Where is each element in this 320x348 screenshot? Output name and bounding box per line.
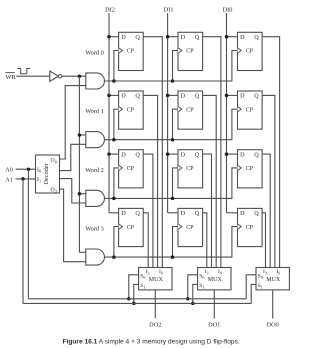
wire A0 to decoder — [16, 168, 36, 170]
junction WR vertical — [78, 74, 82, 78]
svg-text:I1: I1 — [37, 177, 41, 183]
svg-text:D: D — [121, 210, 126, 217]
svg-text:CP: CP — [246, 166, 254, 172]
wire Q output word3 col2 to MUX — [262, 213, 265, 268]
svg-text:D: D — [240, 151, 245, 158]
svg-text:Word 3: Word 3 — [85, 226, 104, 233]
wire Q output word3 col1 to MUX — [203, 213, 207, 268]
flip-flop FF word3 bit2 — [119, 208, 144, 246]
AND gate G2 word 2 — [86, 190, 105, 206]
wire word line 0 — [104, 51, 237, 82]
svg-text:Q: Q — [254, 34, 259, 41]
svg-text:DI2: DI2 — [105, 7, 115, 14]
wire select line S1 — [23, 302, 251, 304]
svg-text:Q: Q — [135, 151, 140, 158]
wire Q output word2 col1 to MUX — [203, 154, 212, 267]
wire DI0 to D input word 3 — [227, 212, 238, 214]
flip-flop FF word3 bit1 — [178, 208, 203, 246]
svg-text:Q: Q — [254, 151, 259, 158]
wire Q output word0 col2 to MUX — [262, 37, 280, 268]
svg-text:DO2: DO2 — [149, 322, 161, 329]
flip-flop FF word0 bit0 — [238, 32, 263, 70]
svg-text:D: D — [121, 151, 126, 158]
pulse waveform symbol — [17, 69, 30, 74]
svg-text:CP: CP — [127, 225, 135, 231]
wire Q output word0 col0 to MUX — [143, 37, 162, 268]
svg-text:D: D — [240, 34, 245, 41]
wire A0 down to S0 select line — [27, 169, 29, 299]
svg-text:DI0: DI0 — [223, 7, 233, 14]
svg-text:Q: Q — [254, 93, 259, 100]
svg-text:CP: CP — [127, 166, 135, 172]
wire DI2 vertical — [108, 13, 110, 213]
svg-text:S1: S1 — [258, 283, 263, 289]
svg-text:CP: CP — [186, 49, 194, 55]
svg-text:D: D — [181, 93, 186, 100]
svg-text:CP: CP — [186, 166, 194, 172]
wire DI0 to D input word 1 — [227, 94, 238, 96]
svg-text:DO0: DO0 — [267, 322, 279, 329]
wire S0 input MUX0 — [246, 275, 256, 299]
svg-text:S0: S0 — [140, 274, 145, 280]
wire word line 1 — [104, 109, 237, 140]
wire decoder O1 to word1 AND — [60, 144, 86, 170]
wire CP riser word 1 col 0 — [114, 109, 119, 140]
svg-text:A0: A0 — [5, 167, 13, 174]
mux U4 MUX1 — [198, 268, 231, 290]
svg-text:MUX: MUX — [149, 277, 164, 283]
svg-text:D: D — [121, 93, 126, 100]
svg-text:S1: S1 — [199, 283, 204, 289]
svg-text:D: D — [121, 34, 126, 41]
svg-text:S0: S0 — [199, 274, 204, 280]
wire DI1 to D input word 1 — [168, 94, 178, 96]
wire Q output word3 col0 to MUX — [143, 213, 148, 268]
wire word line 2 — [104, 168, 237, 199]
wire Q output word1 col2 to MUX — [262, 95, 275, 267]
svg-text:I3: I3 — [205, 269, 209, 275]
wire MUX2 output — [154, 290, 156, 319]
wire decoder O2 to word2 AND — [60, 179, 86, 203]
svg-text:Word 0: Word 0 — [85, 50, 104, 57]
wire CP riser word 2 col 0 — [114, 168, 119, 199]
svg-text:D: D — [240, 93, 245, 100]
svg-text:D: D — [240, 210, 245, 217]
wire MUX1 output — [213, 290, 215, 319]
svg-text:D: D — [181, 210, 186, 217]
flip-flop FF word1 bit1 — [178, 91, 203, 129]
svg-text:I3: I3 — [146, 269, 150, 275]
svg-text:CP: CP — [127, 49, 135, 55]
svg-text:Q: Q — [135, 34, 140, 41]
svg-text:Word 2: Word 2 — [85, 167, 104, 174]
wire A1 to decoder — [16, 178, 36, 180]
flip-flop FF word0 bit2 — [119, 32, 144, 70]
svg-text:Q: Q — [195, 210, 200, 217]
AND gate G3 word 3 — [86, 249, 105, 265]
svg-text:O0: O0 — [51, 158, 57, 164]
wire S1 input MUX0 — [251, 284, 256, 303]
flip-flop FF word3 bit0 — [238, 208, 263, 246]
wire Q output word0 col1 to MUX — [203, 37, 221, 268]
wire Q output word2 col0 to MUX — [143, 154, 153, 267]
svg-text:DI1: DI1 — [164, 7, 174, 14]
wire Q output word2 col2 to MUX — [262, 154, 270, 267]
inverter U1 — [50, 71, 59, 81]
flip-flop FF word1 bit2 — [119, 91, 144, 129]
svg-text:CP: CP — [186, 107, 194, 113]
wire DI1 to D input word 3 — [168, 212, 178, 214]
svg-text:CP: CP — [246, 49, 254, 55]
flip-flop FF word1 bit0 — [238, 91, 263, 129]
svg-text:D: D — [181, 151, 186, 158]
flip-flop FF word2 bit0 — [238, 150, 263, 188]
svg-text:I0: I0 — [37, 167, 41, 173]
wire WR to inverter — [16, 75, 50, 77]
wire DI2 to D input word 2 — [109, 153, 119, 155]
svg-text:I0: I0 — [159, 269, 163, 275]
svg-text:DO1: DO1 — [208, 322, 220, 329]
svg-text:CP: CP — [246, 107, 254, 113]
wire Q output word1 col0 to MUX — [143, 95, 157, 267]
wire Q output word1 col1 to MUX — [203, 95, 217, 267]
wire DI2 to D input word 3 — [109, 212, 119, 214]
svg-text:Decoder: Decoder — [43, 162, 50, 184]
wire CP riser word 0 col 1 — [173, 51, 179, 82]
wire inverter output to word0 AND — [62, 75, 86, 77]
wire word line 3 — [104, 227, 237, 258]
wire DI0 to D input word 0 — [227, 36, 238, 38]
svg-text:I0: I0 — [276, 269, 280, 275]
mux U3 MUX2 — [139, 268, 172, 290]
wire DI0 vertical — [226, 13, 228, 213]
svg-text:O3: O3 — [51, 187, 57, 193]
svg-text:S0: S0 — [258, 274, 263, 280]
svg-text:CP: CP — [186, 225, 194, 231]
wire WR to word3 AND — [79, 251, 85, 253]
svg-text:MUX: MUX — [266, 277, 281, 283]
wire CP riser word 0 col 0 — [114, 51, 119, 82]
wire DI0 to D input word 2 — [227, 153, 238, 155]
wire decoder O0 to word0 AND — [60, 86, 86, 159]
wire S1 input MUX2 — [134, 284, 139, 303]
svg-text:MUX: MUX — [208, 277, 223, 283]
svg-text:Q: Q — [195, 34, 200, 41]
svg-text:I0: I0 — [218, 269, 222, 275]
svg-text:Q: Q — [135, 93, 140, 100]
svg-text:Q: Q — [195, 93, 200, 100]
flip-flop FF word0 bit1 — [178, 32, 203, 70]
svg-text:D: D — [181, 34, 186, 41]
wire DI1 vertical — [167, 13, 169, 213]
wire MUX0 output — [272, 290, 274, 319]
wire DI2 to D input word 1 — [109, 94, 119, 96]
svg-text:S1: S1 — [140, 283, 145, 289]
wire DI1 to D input word 0 — [168, 36, 178, 38]
wire select line S0 — [28, 298, 246, 300]
svg-text:Figure 16.1 A simple 4 × 3 mem: Figure 16.1 A simple 4 × 3 memory design… — [63, 339, 240, 346]
wire S0 input MUX2 — [129, 275, 139, 299]
wire decoder O3 to word3 AND — [60, 189, 86, 262]
mux U5 MUX0 — [256, 268, 289, 290]
wire CP riser word 1 col 1 — [173, 109, 179, 140]
svg-text:I3: I3 — [263, 269, 267, 275]
wire CP riser word 3 col 0 — [114, 227, 119, 258]
svg-text:CP: CP — [246, 225, 254, 231]
decoder U2 — [36, 155, 60, 193]
wire S0 input MUX1 — [188, 275, 198, 299]
wire A1 down to S1 select line — [22, 179, 24, 304]
wire DI2 to D input word 0 — [109, 36, 119, 38]
svg-text:A1: A1 — [5, 176, 13, 183]
svg-text:CP: CP — [127, 107, 135, 113]
wire DI1 to D input word 2 — [168, 153, 178, 155]
svg-text:Q: Q — [135, 210, 140, 217]
AND gate G0 word 0 — [86, 73, 105, 89]
svg-text:Q: Q — [195, 151, 200, 158]
svg-text:Word 1: Word 1 — [85, 108, 104, 115]
svg-text:Q: Q — [254, 210, 259, 217]
wire S1 input MUX1 — [193, 284, 198, 303]
AND gate G1 word 1 — [86, 132, 105, 148]
wire CP riser word 3 col 1 — [173, 227, 179, 258]
wire CP riser word 2 col 1 — [173, 168, 179, 199]
wire WR vertical bus — [78, 76, 80, 252]
svg-text:WR: WR — [6, 74, 17, 81]
wire WR to word1 AND — [79, 134, 85, 136]
flip-flop FF word2 bit1 — [178, 150, 203, 188]
wire WR to word2 AND — [79, 193, 85, 195]
flip-flop FF word2 bit2 — [119, 150, 144, 188]
